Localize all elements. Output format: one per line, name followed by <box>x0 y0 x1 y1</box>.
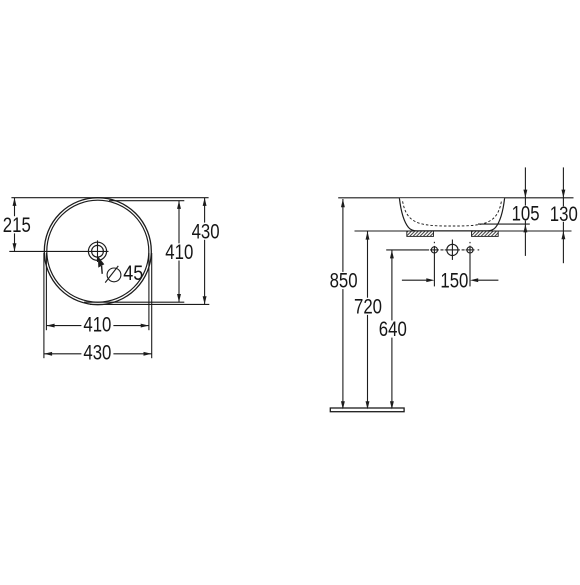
faucet center hole circle <box>447 244 458 255</box>
label 640 <box>377 320 409 337</box>
faucet holes horizontal centerline <box>386 249 429 251</box>
arrow 105 bottom up <box>523 224 527 232</box>
arrow 215 up <box>13 198 17 206</box>
arrow 720 down <box>366 401 370 409</box>
left hole extension line down <box>433 246 435 287</box>
dimension line 215 vertical <box>14 198 16 252</box>
left outer vertical extension line <box>43 253 45 358</box>
basin outer rim circle <box>44 198 151 305</box>
arrow 150 left (right tail) <box>470 278 478 282</box>
rim level extension line <box>338 197 573 199</box>
arrow 850 up <box>341 199 345 207</box>
dimension 130 line segment above text <box>562 198 564 207</box>
svg-text:215: 215 <box>3 214 31 237</box>
top extension line (outer rim) <box>11 197 208 199</box>
arrow 130 top down <box>561 190 565 198</box>
dimension line 430 horizontal bottom <box>44 353 152 355</box>
left inner vertical extension line <box>45 253 47 330</box>
dimension line 410 vertical right <box>178 201 180 303</box>
diameter symbol circle <box>107 268 121 282</box>
arrow 410 horizontal left <box>46 324 54 328</box>
label 215 <box>1 216 33 233</box>
arrow 850 down <box>341 401 345 409</box>
svg-text:430: 430 <box>83 342 111 365</box>
centerline dash <box>462 249 465 251</box>
counter / mounting surface line <box>355 230 572 232</box>
dimension 105 top tail <box>524 167 526 197</box>
drain outer circle <box>88 242 106 260</box>
right hole extension line down <box>469 246 471 287</box>
top extension line (inner rim) <box>109 200 184 202</box>
label 430 horizontal <box>81 344 113 361</box>
floor bar <box>330 408 404 412</box>
center hole crosshair horizontal <box>445 249 460 251</box>
dimension 105 line segment below text <box>524 221 526 225</box>
arrow 640 up <box>390 250 394 258</box>
left hole centerline dot above <box>433 242 435 243</box>
right mounting pad (hatched) <box>472 231 499 236</box>
centerline dash <box>441 249 444 251</box>
svg-text:720: 720 <box>354 296 382 319</box>
right side hole circle <box>467 247 473 253</box>
right hole centerline dot above <box>469 242 471 243</box>
svg-text:850: 850 <box>330 270 358 293</box>
arrow 430 horizontal right <box>144 352 152 356</box>
arrow 410 vertical down <box>177 294 181 302</box>
drain vertical centerline <box>97 240 99 262</box>
bottom extension line (outer rim) <box>90 303 209 305</box>
bottom extension line (inner rim) <box>84 301 184 303</box>
dimension 150 right tail <box>475 279 499 281</box>
basin inner rim circle <box>47 200 149 302</box>
svg-text:105: 105 <box>512 202 540 225</box>
svg-text:640: 640 <box>379 318 407 341</box>
dimension line 410 horizontal bottom <box>46 325 148 327</box>
svg-text:410: 410 <box>83 313 111 336</box>
svg-text:150: 150 <box>440 269 468 292</box>
left hole crosshair horizontal <box>430 249 439 251</box>
right inner vertical extension line <box>148 253 150 330</box>
label 410 vertical <box>163 243 195 260</box>
label 850 <box>328 272 360 289</box>
label 410 horizontal <box>81 316 113 333</box>
dimension line 850 <box>342 199 344 408</box>
dimension 130 line segment below text <box>562 222 564 231</box>
label 720 <box>352 298 384 315</box>
right outer vertical extension line <box>151 253 153 358</box>
arrow 410 horizontal right <box>141 324 149 328</box>
svg-text:45: 45 <box>123 262 143 285</box>
extension line for 105 (inner bottom) <box>478 223 530 225</box>
dimension line 720 <box>367 231 369 408</box>
dimension 130 bottom tail <box>562 231 564 263</box>
svg-text:430: 430 <box>192 220 220 243</box>
arrow 215 down <box>13 243 17 251</box>
dimension 105 line segment above text <box>524 198 526 206</box>
drain leader tail <box>101 266 104 274</box>
arrow 105 top down <box>523 190 527 198</box>
arrow 430 vertical down <box>203 296 207 304</box>
arrow 150 right (left tail) <box>426 278 434 282</box>
label 430 vertical <box>190 223 222 240</box>
horizontal centerline through drain <box>9 250 108 252</box>
dimension 105 bottom tail <box>524 224 526 256</box>
dimension 150 left tail <box>402 279 430 281</box>
left mounting pad (hatched) <box>407 231 434 236</box>
diameter symbol slash <box>105 266 118 283</box>
faucet center hole vertical centerline <box>451 240 453 260</box>
drain inner circle <box>92 245 104 257</box>
drain leader arrow <box>98 256 104 267</box>
arrow 430 horizontal left <box>44 352 52 356</box>
dimension 130 top tail <box>562 167 564 197</box>
dimension line 640 <box>391 250 393 408</box>
arrow 430 vertical up <box>203 198 207 206</box>
svg-text:410: 410 <box>165 241 193 264</box>
dimension line 430 vertical right <box>204 198 206 305</box>
arrow 410 vertical up <box>177 201 181 209</box>
arrow 720 up <box>366 231 370 239</box>
arrow 130 bottom up <box>561 231 565 239</box>
left side hole circle <box>431 247 437 253</box>
centerline dot right <box>478 249 480 251</box>
right hole crosshair horizontal <box>466 249 475 251</box>
basin side profile <box>399 198 504 231</box>
svg-text:130: 130 <box>550 203 578 226</box>
basin inner surface dashed curve <box>403 201 502 226</box>
arrow 640 down <box>390 401 394 409</box>
